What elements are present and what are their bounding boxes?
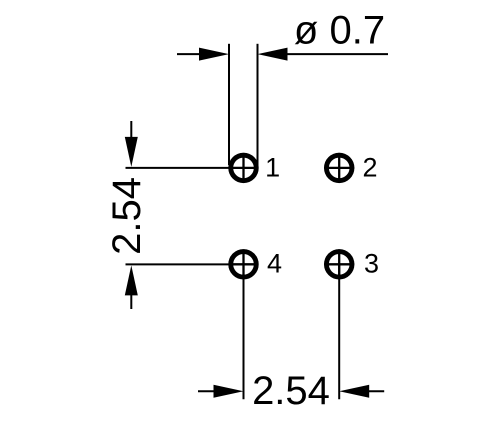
dimension line left (diameter) (177, 53, 216, 55)
arrowhead up-pointing (vertical pitch bottom) (125, 265, 138, 295)
extension line right (horizontal pitch, hole 3) (338, 264, 340, 399)
dimension line right (diameter) (270, 53, 388, 55)
svg-text:3: 3 (364, 249, 379, 279)
extension line left of hole-1 diameter (228, 44, 230, 165)
svg-text:2.54: 2.54 (252, 369, 330, 413)
hole 1 crosshair (229, 153, 259, 183)
svg-text:4: 4 (267, 249, 282, 279)
svg-text:2: 2 (362, 152, 377, 182)
arrowhead left-pointing (horizontal pitch right) (339, 385, 369, 398)
dimension tail top (vertical pitch) (130, 121, 132, 144)
dimension tail bottom (vertical pitch) (130, 288, 132, 309)
arrowhead left-pointing (diameter right) (258, 48, 288, 61)
extension line left (horizontal pitch, hole 4) (243, 264, 245, 399)
hole 2 crosshair (324, 153, 354, 183)
dimension tail right (horizontal pitch) (362, 390, 384, 392)
svg-text:2.54: 2.54 (105, 177, 149, 255)
svg-text:ø 0.7: ø 0.7 (294, 9, 385, 53)
arrowhead right-pointing (diameter left) (199, 48, 229, 61)
dimension tail left (horizontal pitch) (198, 390, 221, 392)
extension line top (vertical pitch, hole 1) (126, 167, 230, 169)
extension line right of hole-1 diameter (257, 44, 259, 165)
extension line bottom (vertical pitch, hole 4) (126, 263, 230, 265)
hole 3 crosshair (324, 249, 354, 279)
svg-text:1: 1 (265, 152, 280, 182)
arrowhead down-pointing (vertical pitch top) (125, 137, 138, 167)
hole 4 crosshair (229, 249, 259, 279)
arrowhead right-pointing (horizontal pitch left) (214, 385, 244, 398)
